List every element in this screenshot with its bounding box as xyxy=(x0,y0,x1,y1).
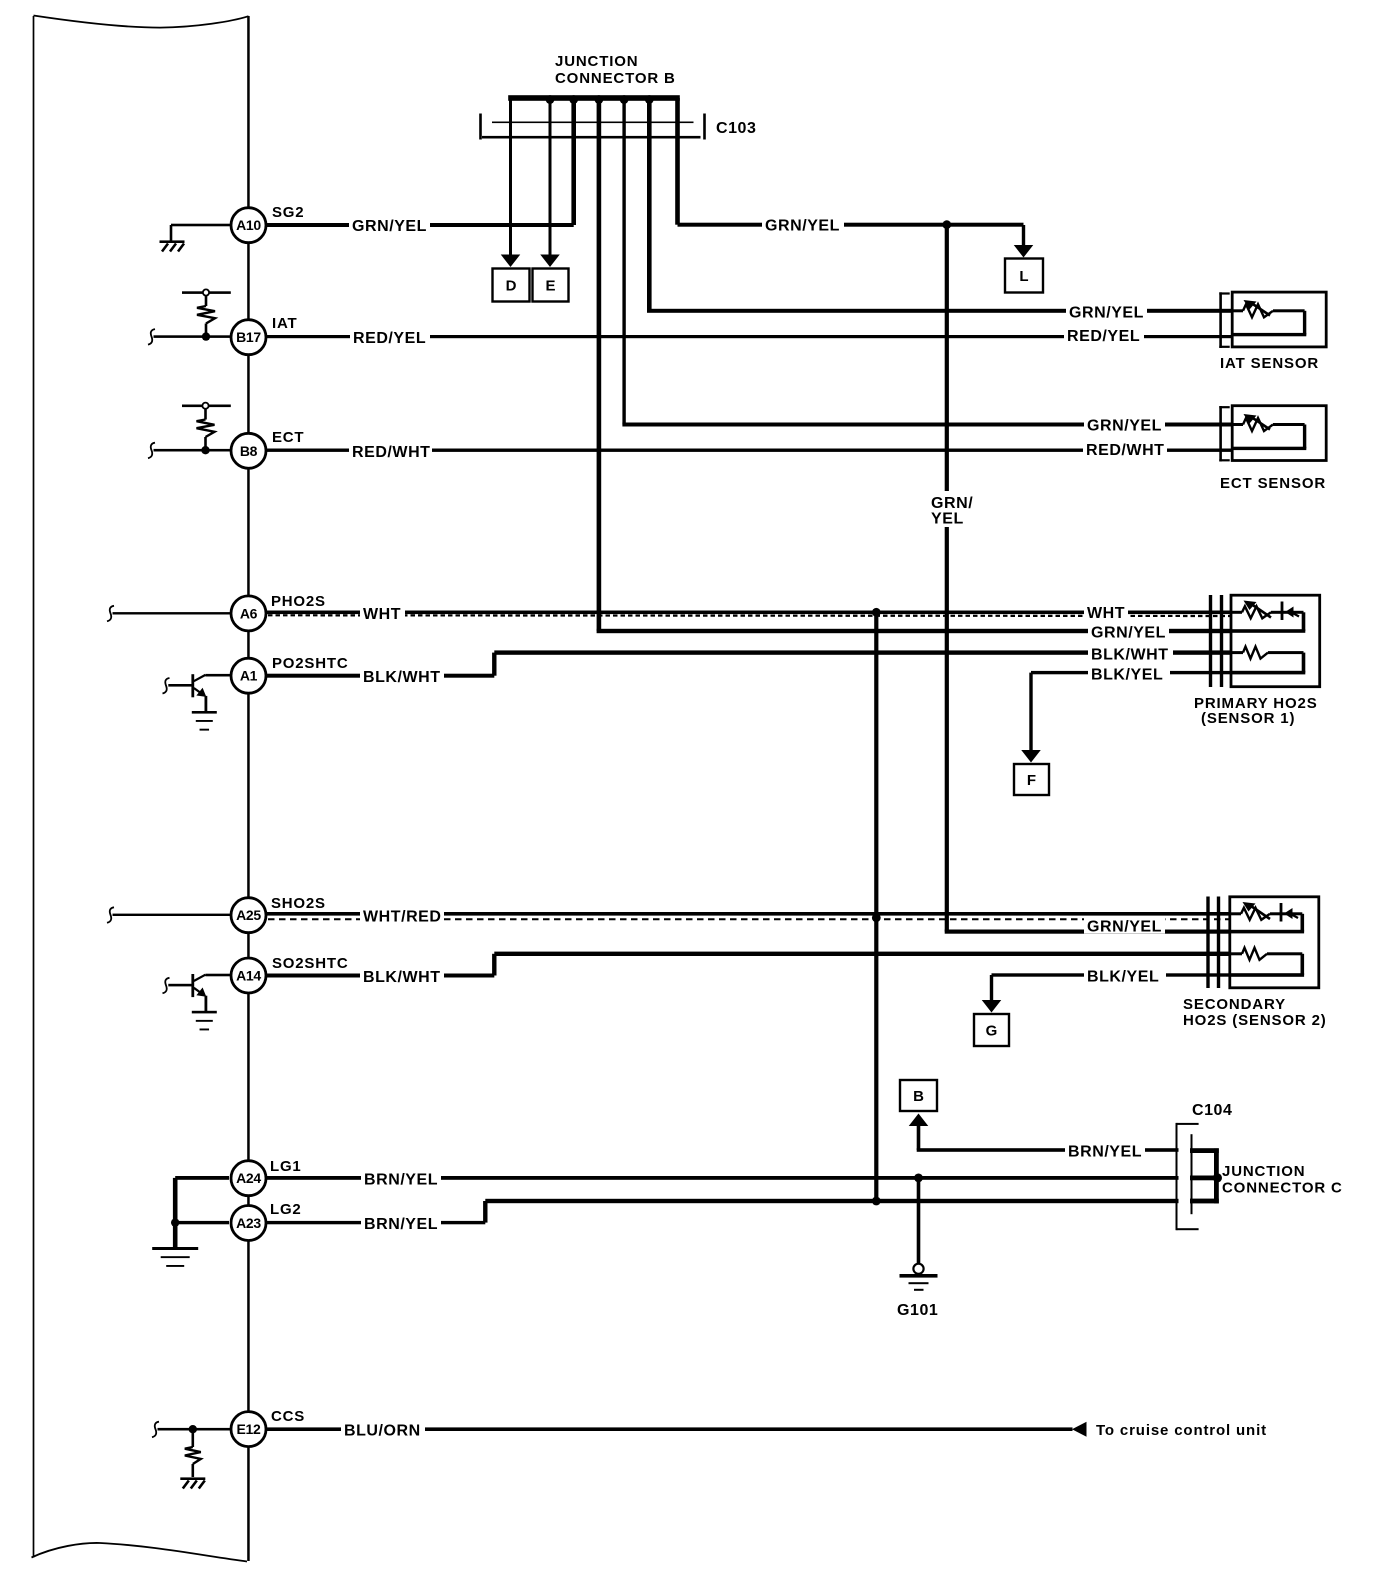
svg-text:BLK/YEL: BLK/YEL xyxy=(1091,666,1163,683)
ground G101 xyxy=(913,1264,923,1274)
thermistor inside IAT sensor xyxy=(1233,309,1243,312)
wire GRN/YEL vertical trunk xyxy=(945,225,949,932)
svg-text:GRN/YEL: GRN/YEL xyxy=(765,218,840,235)
label WHT (right) xyxy=(1084,603,1128,621)
resistor pull-up at B8 xyxy=(182,405,231,408)
label BLK/YEL (primary) xyxy=(1088,664,1170,681)
wire drop to D xyxy=(509,98,512,255)
svg-text:GRN/YEL: GRN/YEL xyxy=(1087,418,1162,435)
ECM pin A14 xyxy=(231,958,266,993)
junction connector B bus bar xyxy=(508,95,680,101)
wire LG1 BRN/YEL to connector C xyxy=(266,1176,1179,1180)
label BRN/YEL (LG1) xyxy=(361,1169,441,1186)
svg-text:GRN/YEL: GRN/YEL xyxy=(1087,919,1162,936)
label GRN/YEL (branch) xyxy=(762,216,844,233)
svg-text:PO2SHTC: PO2SHTC xyxy=(272,655,348,672)
connector C103 right bracket xyxy=(703,114,706,140)
ECT sensor case xyxy=(1232,406,1326,461)
wire SO2SHTC BLK/WHT xyxy=(266,974,495,978)
wire BRN/YEL to B xyxy=(917,1126,921,1151)
arrow into B xyxy=(909,1114,929,1127)
svg-text:E: E xyxy=(545,278,555,295)
terminal box E xyxy=(533,269,569,302)
sensing cell inside secondary HO2S xyxy=(1231,912,1241,915)
junction dot B8 resistor xyxy=(201,446,209,454)
junction dot A23 ground xyxy=(171,1218,179,1226)
wire LG2 BRN/YEL xyxy=(266,1221,485,1224)
svg-text:RED/WHT: RED/WHT xyxy=(1086,442,1165,459)
svg-text:To cruise control unit: To cruise control unit xyxy=(1096,1422,1267,1439)
ECM pin A6 xyxy=(231,596,266,631)
ECM box bottom torn edge xyxy=(32,1543,248,1562)
chassis ground at E12 xyxy=(180,1477,205,1480)
label BLK/YEL (secondary) xyxy=(1084,967,1166,984)
ground at A14 transistor xyxy=(192,1011,217,1014)
svg-text:A24: A24 xyxy=(236,1170,261,1186)
secondary HO2S case xyxy=(1230,897,1319,988)
svg-text:C103: C103 xyxy=(716,120,756,137)
wire drop to SG2 row xyxy=(571,98,576,225)
svg-text:B17: B17 xyxy=(236,329,261,345)
connector C103 upper line xyxy=(492,122,694,124)
svg-text:CONNECTOR B: CONNECTOR B xyxy=(555,70,676,87)
junction dot bus-E xyxy=(546,95,555,104)
junction dot E12 resistor xyxy=(189,1425,197,1433)
svg-text:LG2: LG2 xyxy=(270,1201,302,1218)
wire drop to G101 xyxy=(917,1178,921,1265)
svg-text:A14: A14 xyxy=(236,968,261,984)
ECM connector box left torn edge xyxy=(33,16,35,1558)
label BRN/YEL (to B) xyxy=(1065,1142,1145,1159)
wire GRN/YEL right branch xyxy=(678,223,1024,227)
wire GRN/YEL to IAT sensor xyxy=(647,309,1233,313)
label GRN/ YEL on trunk xyxy=(928,491,976,527)
ECM pin E12 xyxy=(231,1412,266,1447)
label BLU/ORN xyxy=(341,1421,425,1438)
svg-text:ECT SENSOR: ECT SENSOR xyxy=(1220,475,1326,492)
wire elbow down to L xyxy=(1022,225,1025,246)
svg-text:JUNCTION: JUNCTION xyxy=(555,53,638,70)
svg-text:WHT: WHT xyxy=(363,606,401,623)
wire drop to E xyxy=(549,98,552,255)
wire WHT A6 to primary HO2S xyxy=(266,611,1232,615)
svg-text:BLK/YEL: BLK/YEL xyxy=(1087,969,1159,986)
wire A24 to ground tap xyxy=(175,1176,229,1180)
junction dot B17 resistor xyxy=(202,332,210,340)
label RED/YEL (right) xyxy=(1064,326,1144,343)
ground at A24/A23 xyxy=(152,1247,198,1250)
svg-text:SG2: SG2 xyxy=(272,204,304,221)
thermistor inside ECT sensor xyxy=(1233,423,1243,426)
svg-text:SHO2S: SHO2S xyxy=(271,895,326,912)
ECM pin A25 xyxy=(231,898,266,933)
ECM pin A10 xyxy=(231,208,266,243)
wire GRN/YEL drop to primary HO2S xyxy=(597,629,1232,633)
connector C103 lower line xyxy=(482,136,701,139)
arrow into G xyxy=(982,1000,1002,1013)
wire BLK/YEL secondary to G xyxy=(992,973,1232,976)
svg-text:GRN/YEL: GRN/YEL xyxy=(1069,305,1144,322)
svg-text:BRN/YEL: BRN/YEL xyxy=(364,1216,438,1233)
junction dot connector C xyxy=(1213,1173,1222,1182)
svg-text:BLK/WHT: BLK/WHT xyxy=(363,669,441,686)
svg-text:BLU/ORN: BLU/ORN xyxy=(344,1423,421,1440)
svg-text:GRN/YEL: GRN/YEL xyxy=(352,218,427,235)
svg-text:A23: A23 xyxy=(236,1215,261,1231)
wire B17 stub left xyxy=(148,329,155,345)
ECM box top torn edge xyxy=(34,16,249,28)
label RED/YEL (left) xyxy=(350,328,430,345)
wire drop to IAT GRN/YEL xyxy=(647,98,652,311)
ECM pin column wire xyxy=(247,16,250,1561)
svg-text:E12: E12 xyxy=(236,1421,261,1437)
svg-text:LG1: LG1 xyxy=(270,1158,302,1175)
label BRN/YEL (LG2) xyxy=(361,1214,441,1231)
svg-text:BRN/YEL: BRN/YEL xyxy=(364,1171,438,1188)
svg-text:HO2S (SENSOR 2): HO2S (SENSOR 2) xyxy=(1183,1012,1327,1029)
wire drop to ECT GRN/YEL xyxy=(622,98,625,425)
svg-text:SO2SHTC: SO2SHTC xyxy=(272,955,348,972)
label RED/WHT (right) xyxy=(1083,440,1167,457)
svg-text:SECONDARY: SECONDARY xyxy=(1183,996,1286,1013)
svg-text:RED/YEL: RED/YEL xyxy=(1067,328,1140,345)
svg-text:F: F xyxy=(1027,772,1036,789)
ECM pin A23 xyxy=(231,1206,266,1241)
svg-text:(SENSOR 1): (SENSOR 1) xyxy=(1201,710,1295,727)
svg-text:B: B xyxy=(913,1088,924,1105)
heater inside primary HO2S xyxy=(1232,651,1243,654)
transistor driver at A14 xyxy=(163,978,170,994)
label WHT/RED xyxy=(360,907,444,924)
junction dot trunk at LG2 xyxy=(872,1197,881,1206)
wire WHT/RED A25 to secondary HO2S xyxy=(264,912,1231,916)
arrow into F xyxy=(1021,750,1041,763)
svg-text:CCS: CCS xyxy=(271,1408,305,1425)
connector C104 outer bracket xyxy=(1176,1123,1178,1230)
ground at A1 transistor xyxy=(192,711,217,714)
svg-text:B8: B8 xyxy=(240,443,258,459)
wire BLK/YEL primary to F xyxy=(1031,671,1232,674)
ECM pin A24 xyxy=(231,1161,266,1196)
wire RED/YEL B17 to IAT sensor xyxy=(266,335,1233,338)
chassis ground at A10 xyxy=(160,240,185,243)
svg-text:YEL: YEL xyxy=(931,511,964,528)
heater inside secondary HO2S xyxy=(1231,952,1242,955)
svg-text:ECT: ECT xyxy=(272,429,304,446)
svg-text:WHT: WHT xyxy=(1087,605,1125,622)
resistor at E12 xyxy=(192,1429,195,1447)
terminal box F xyxy=(1014,764,1049,795)
wire A10 to ground tap xyxy=(171,224,232,227)
wire E12 stub left xyxy=(152,1422,159,1438)
arrow into D xyxy=(501,255,521,268)
junction dot bus-ECT xyxy=(620,95,629,104)
svg-text:A6: A6 xyxy=(240,605,258,621)
arrow to cruise control unit xyxy=(1072,1422,1087,1437)
svg-text:BLK/WHT: BLK/WHT xyxy=(363,969,441,986)
connector C104 inner bar xyxy=(1191,1134,1193,1214)
arrow into L xyxy=(1014,245,1034,258)
svg-text:IAT SENSOR: IAT SENSOR xyxy=(1220,355,1319,372)
svg-text:BRN/YEL: BRN/YEL xyxy=(1068,1144,1142,1161)
wire GRN/YEL to ECT sensor xyxy=(622,423,1233,427)
wire SG2 GRN/YEL left segment xyxy=(266,223,574,227)
connector bracket secondary HO2S xyxy=(1206,897,1209,989)
label WHT (left) xyxy=(360,604,405,622)
ECM pin A1 xyxy=(231,658,266,693)
svg-text:PHO2S: PHO2S xyxy=(271,593,326,610)
label BLK/WHT (primary) xyxy=(1088,645,1173,662)
svg-text:RED/YEL: RED/YEL xyxy=(353,330,426,347)
wire BLU/ORN to cruise control xyxy=(266,1427,1073,1431)
terminal box D xyxy=(493,269,530,302)
arrow into E xyxy=(540,255,560,268)
label GRN/YEL (SG2) xyxy=(349,216,430,233)
primary HO2S case xyxy=(1231,595,1320,687)
svg-text:G101: G101 xyxy=(897,1302,938,1319)
terminal box G xyxy=(974,1014,1009,1046)
svg-text:JUNCTION: JUNCTION xyxy=(1222,1163,1305,1180)
junction dot trunk at WHT/RED xyxy=(872,913,881,922)
wire drop to primary GRN/YEL xyxy=(597,98,602,631)
resistor pull-up at B17 xyxy=(182,291,231,294)
svg-text:WHT/RED: WHT/RED xyxy=(363,909,442,926)
junction connector C bus xyxy=(1190,1148,1219,1153)
junction dot bus-IAT xyxy=(645,95,654,104)
label BLK/WHT (A14) xyxy=(360,967,444,984)
terminal box B xyxy=(900,1080,937,1111)
connector bracket primary HO2S xyxy=(1209,595,1212,687)
junction dot GRN/YEL branch xyxy=(942,220,951,229)
sensing cell inside primary HO2S xyxy=(1232,611,1242,614)
svg-text:CONNECTOR C: CONNECTOR C xyxy=(1222,1180,1343,1197)
label GRN/YEL (primary) xyxy=(1088,623,1169,640)
wire RED/WHT B8 to ECT sensor xyxy=(266,449,1234,452)
wire drop to right GRN/YEL branch xyxy=(675,98,680,225)
transistor driver at A1 xyxy=(163,678,170,694)
svg-text:A25: A25 xyxy=(236,907,261,923)
svg-text:G: G xyxy=(986,1023,998,1040)
label GRN/YEL (IAT) xyxy=(1066,303,1147,320)
label BLK/WHT (A1) xyxy=(360,667,444,684)
label RED/WHT (left) xyxy=(349,442,432,459)
junction dot G101 tap xyxy=(914,1174,923,1183)
svg-text:L: L xyxy=(1019,268,1028,285)
wire A6 stub left xyxy=(107,606,114,622)
svg-text:GRN/YEL: GRN/YEL xyxy=(1091,625,1166,642)
wire PO2SHTC BLK/WHT xyxy=(266,674,495,678)
terminal box L xyxy=(1005,259,1043,293)
junction dot WHT trunk xyxy=(872,608,881,617)
wire A25 stub left xyxy=(107,907,114,923)
label GRN/YEL (secondary) xyxy=(1084,917,1165,934)
junction dot bus-SG2 xyxy=(569,95,578,104)
label GRN/YEL (ECT) xyxy=(1084,416,1165,433)
wire WHT vertical trunk xyxy=(874,612,878,1201)
wire B8 stub left xyxy=(148,443,155,459)
connector C103 left bracket xyxy=(479,114,482,140)
svg-text:BLK/WHT: BLK/WHT xyxy=(1091,647,1169,664)
wire A23 to ground tap xyxy=(175,1221,229,1224)
svg-text:D: D xyxy=(506,278,517,295)
svg-text:A1: A1 xyxy=(240,668,258,684)
svg-text:A10: A10 xyxy=(236,217,261,233)
connector bracket ECT xyxy=(1219,406,1222,462)
connector bracket IAT xyxy=(1219,292,1222,348)
svg-text:IAT: IAT xyxy=(272,315,297,332)
svg-text:GRN/: GRN/ xyxy=(931,495,973,512)
ECM pin B8 xyxy=(231,433,266,468)
junction dot bus-primary xyxy=(595,95,604,104)
ECM pin B17 xyxy=(231,320,266,355)
svg-text:RED/WHT: RED/WHT xyxy=(352,444,431,461)
svg-text:C104: C104 xyxy=(1192,1102,1232,1119)
IAT sensor case xyxy=(1232,292,1326,347)
